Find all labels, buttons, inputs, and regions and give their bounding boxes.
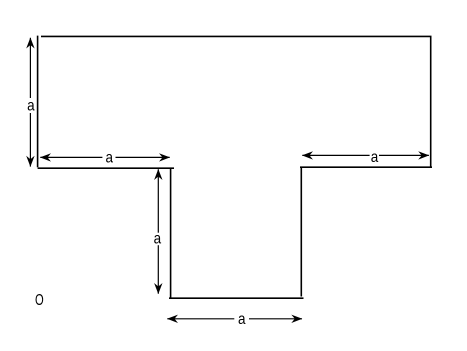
dimension arrow: left flange height "a" [26,38,35,167]
dimension arrow: stem width "a" [167,311,302,328]
dimension arrow: left flange width "a" [40,150,170,167]
svg-text:O: O [35,292,44,309]
svg-text:a: a [238,311,246,328]
svg-text:a: a [106,150,114,167]
T-shape outline: bottom-left flange edge [38,167,174,169]
T-shape outline: stem left edge [170,168,172,298]
svg-text:a: a [154,230,162,247]
T-shape outline: left edge [37,36,39,168]
T-shape outline: right edge [430,36,432,168]
T-shape outline: top edge [41,35,432,37]
svg-text:a: a [371,149,379,166]
T-shape outline: stem bottom edge [169,297,304,299]
svg-text:a: a [27,98,35,115]
T-shape outline: bottom-right flange edge [300,166,432,168]
dimension arrow: stem height "a" [154,169,163,294]
T-shape outline: stem right edge [300,167,302,296]
dimension arrow: right flange width "a" [302,149,429,166]
